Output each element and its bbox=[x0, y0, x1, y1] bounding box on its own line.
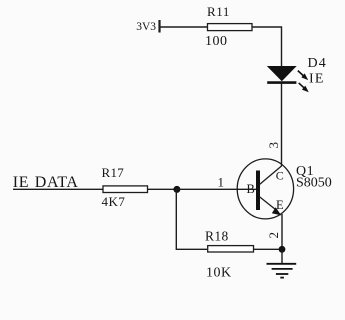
svg-text:DATA: DATA bbox=[35, 174, 79, 191]
svg-text:R18: R18 bbox=[205, 228, 229, 243]
wire R18 to ground junction bbox=[254, 248, 283, 250]
resistor R11 bbox=[208, 24, 253, 31]
wire R17 to junction bbox=[148, 188, 177, 190]
wire junction to ground bbox=[281, 249, 283, 263]
svg-text:3: 3 bbox=[266, 142, 281, 149]
svg-text:S8050: S8050 bbox=[296, 176, 332, 191]
power port 3V3 bbox=[136, 20, 159, 33]
wire LED cathode to collector bbox=[281, 84, 283, 167]
resistor R17 bbox=[103, 186, 148, 193]
svg-text:R11: R11 bbox=[207, 4, 230, 19]
svg-text:D4: D4 bbox=[308, 56, 328, 71]
LED D4 bbox=[267, 67, 309, 93]
wire emitter to ground junction bbox=[281, 214, 283, 249]
svg-text:10K: 10K bbox=[206, 266, 232, 281]
node junction base bbox=[173, 186, 180, 193]
wire IE DATA to R17 bbox=[13, 188, 103, 190]
wire junction to R18 bbox=[176, 189, 207, 249]
svg-text:E: E bbox=[276, 198, 284, 212]
svg-text:1: 1 bbox=[218, 175, 225, 190]
svg-text:C: C bbox=[276, 169, 284, 183]
node junction ground bbox=[279, 246, 286, 253]
svg-text:R17: R17 bbox=[102, 165, 125, 180]
svg-text:3V3: 3V3 bbox=[136, 21, 156, 33]
transistor Q1 bbox=[237, 159, 293, 219]
wire junction to base bbox=[176, 188, 256, 190]
svg-text:IE: IE bbox=[309, 71, 325, 86]
svg-text:4K7: 4K7 bbox=[102, 194, 126, 209]
resistor R18 bbox=[208, 246, 254, 252]
svg-text:IE: IE bbox=[13, 174, 29, 191]
wire 3V3 to R11 bbox=[160, 26, 208, 28]
svg-text:2: 2 bbox=[266, 232, 281, 239]
svg-text:B: B bbox=[247, 182, 255, 196]
svg-text:100: 100 bbox=[205, 34, 228, 49]
wire R11 to LED anode bbox=[252, 27, 282, 67]
ground bbox=[267, 264, 297, 278]
